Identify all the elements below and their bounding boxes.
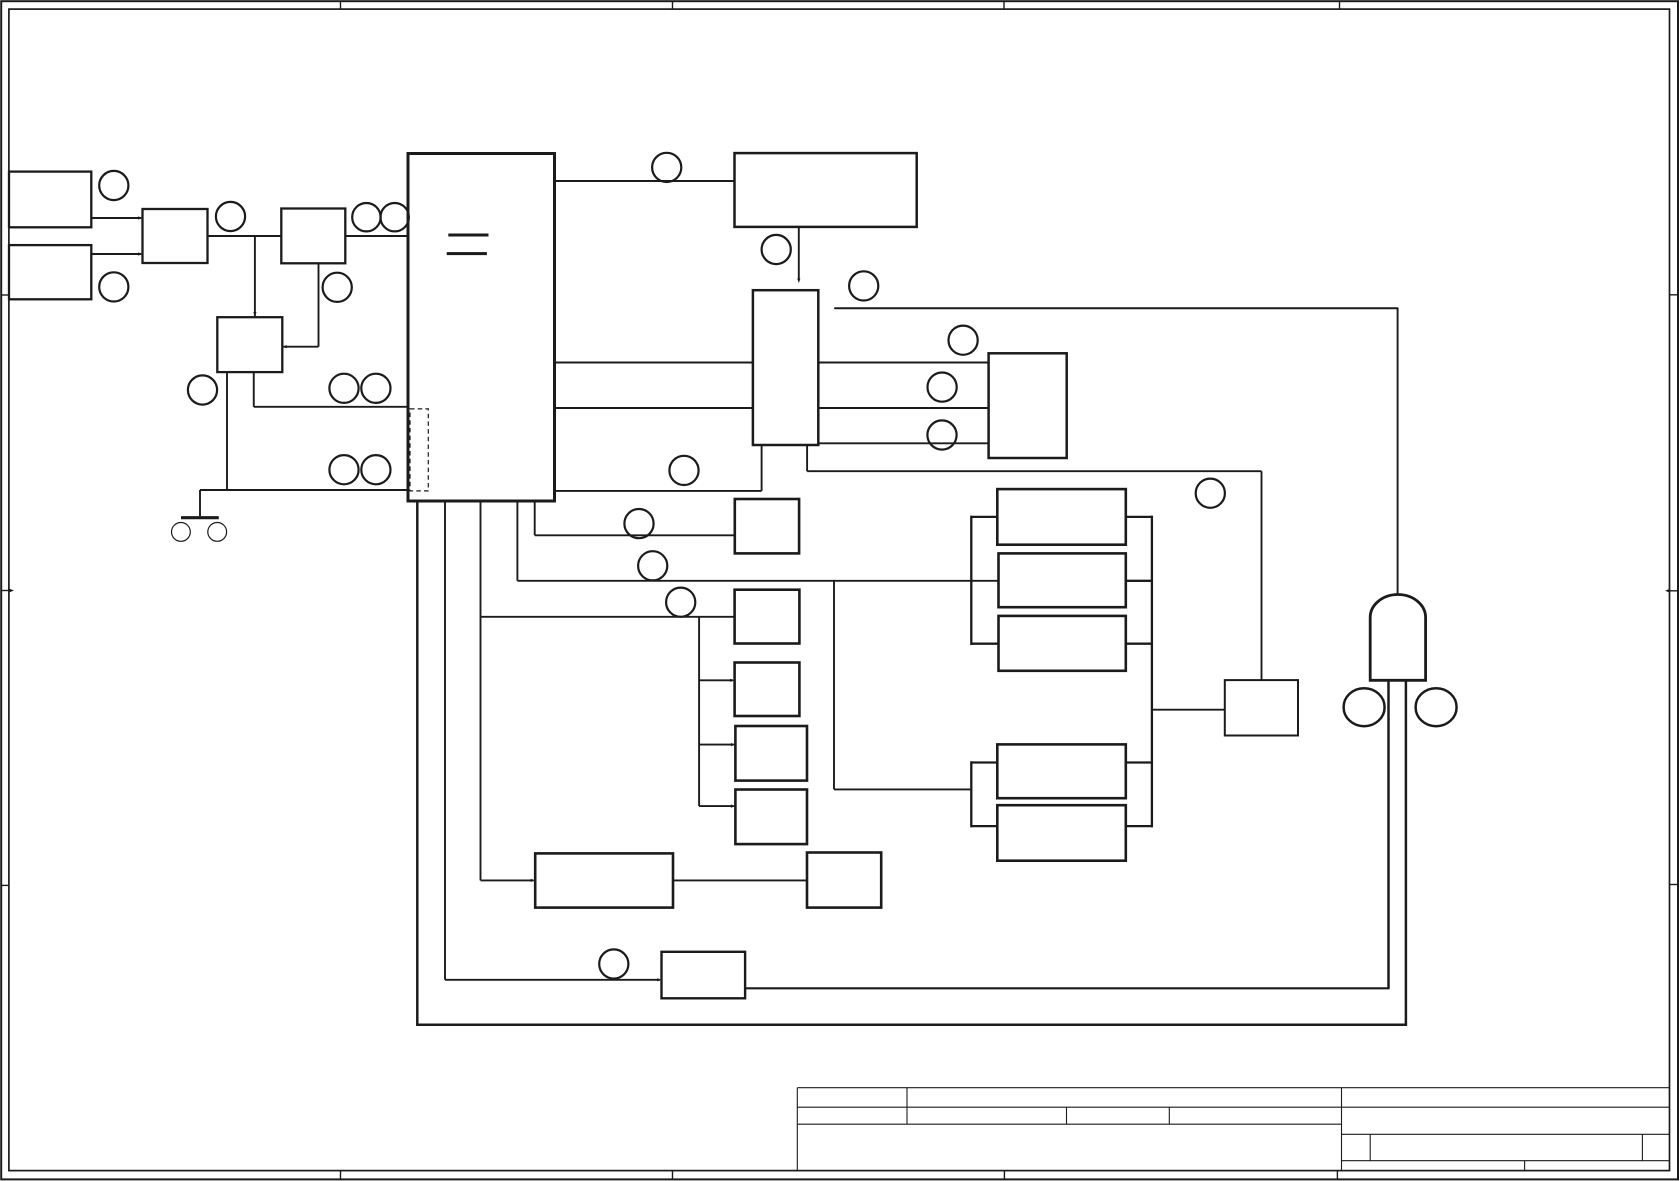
connector circle C18 xyxy=(638,551,667,580)
wire U1 right to B7 bottom xyxy=(555,445,762,491)
dashed option box on U1 left edge xyxy=(410,409,428,491)
wire U1 to B7 lower xyxy=(555,407,753,409)
bus wire down middle column xyxy=(698,617,700,806)
top border zone tick 1 xyxy=(340,1,342,9)
connector circle C2 xyxy=(99,272,128,301)
left border centering arrow xyxy=(1,589,14,593)
wire B7 bottom to B17 xyxy=(807,445,1261,680)
block B1 (top-left input unit) xyxy=(9,172,91,228)
block BC (fuse unit 3) xyxy=(999,616,1126,671)
connector circle pair C4b xyxy=(381,203,409,231)
wire B5 down to U1 pin xyxy=(254,372,408,407)
block BD (fuse unit 4) xyxy=(997,744,1126,798)
main unit U1 (power control module) xyxy=(408,154,555,502)
wire B5 to ground bus xyxy=(226,372,228,490)
block BA (fuse unit 1) xyxy=(997,489,1126,545)
connector circle C10 xyxy=(762,235,791,264)
battery symbol bar 2 xyxy=(447,252,487,255)
block B3 (junction unit) xyxy=(143,209,208,263)
wire branch down to lower stack xyxy=(834,581,971,790)
stub wire to B13 xyxy=(699,805,735,808)
wire B1 to B3 xyxy=(91,216,142,219)
title block right row line 2 xyxy=(1342,1133,1670,1135)
block B14 (switch panel unit) xyxy=(535,853,673,907)
left border zone tick 1 xyxy=(1,294,9,296)
connector circle C15 xyxy=(669,456,698,485)
horn left lead xyxy=(1387,681,1390,988)
wire B7 to B8 middle xyxy=(818,407,988,409)
connector circle pair C7a xyxy=(329,455,358,484)
connector circle C11 xyxy=(849,271,878,300)
block B5 (control unit) xyxy=(217,317,282,372)
block B15 (aux unit) xyxy=(807,853,881,908)
stub wire to B12 xyxy=(699,743,735,746)
block B6 (top display unit) xyxy=(735,153,917,227)
stub wire to B11 xyxy=(699,679,735,682)
connector circle pair C4a xyxy=(352,203,380,231)
block B17 (relay box) xyxy=(1225,680,1298,735)
connector circle C5 xyxy=(323,273,352,302)
horn / sounder SP1 xyxy=(1370,595,1425,681)
block B2 (lower-left input unit) xyxy=(9,245,91,299)
ground symbol xyxy=(172,490,227,541)
left bracket bus of bottom stack xyxy=(971,761,997,827)
wire U1 pin4 to BB row xyxy=(517,501,998,581)
block BE (fuse unit 5) xyxy=(997,805,1126,861)
horn terminal circle left xyxy=(1344,688,1385,726)
title block right cell divider 2 xyxy=(1641,1134,1643,1160)
wire U1 pin2 to B16 xyxy=(445,501,662,981)
wire to horn top xyxy=(835,308,1398,594)
top border zone tick 4 xyxy=(1339,1,1341,9)
ground bus wire into U1 xyxy=(200,489,408,491)
title block left cell divider 1 xyxy=(906,1088,908,1125)
right border centering arrow xyxy=(1665,589,1678,593)
left border zone tick 2 xyxy=(1,884,9,886)
connector circle C12 xyxy=(949,326,978,355)
title block left cell divider 2 xyxy=(1066,1107,1068,1124)
block B16 (buzzer driver unit) xyxy=(662,952,746,999)
block B13 (lamp unit 4) xyxy=(735,790,807,845)
battery symbol bar 1 xyxy=(448,234,488,237)
top border zone tick 3 xyxy=(1003,1,1005,9)
wire B14 to B15 xyxy=(673,879,807,881)
wire U1 to B7 upper xyxy=(555,362,753,364)
title block right cell divider 1 xyxy=(1369,1134,1371,1160)
right border zone tick 2 xyxy=(1670,884,1679,886)
wire B7 to B8 upper xyxy=(818,362,988,364)
block B4 (relay unit) xyxy=(281,209,345,264)
connector circle C17 xyxy=(624,509,653,538)
wire U1 pin3 to B10 xyxy=(481,501,735,880)
connector circle C20 xyxy=(599,949,628,978)
connector circle C1 xyxy=(99,171,128,200)
connector circle C14 xyxy=(927,420,956,449)
block B8 (sensor unit) xyxy=(989,353,1067,458)
horn right lead xyxy=(1405,681,1408,1025)
connector circle pair C6b xyxy=(361,374,390,403)
title block bottom cell divider xyxy=(1524,1161,1526,1171)
block B11 (lamp unit 2) xyxy=(735,663,800,717)
block B10 (lamp unit 1) xyxy=(735,590,800,644)
block B9 (memory unit) xyxy=(735,499,799,553)
title block right row line 3 xyxy=(1342,1160,1670,1162)
stub wire to B14 xyxy=(481,879,536,882)
bottom border zone tick 3 xyxy=(1003,1171,1005,1180)
top border zone tick 2 xyxy=(672,1,674,9)
connector circle C16 xyxy=(1196,479,1225,508)
stub wire bracket to B17 xyxy=(1152,709,1225,711)
wire B4 bottom to B5 right xyxy=(282,263,318,348)
connector circle C3 xyxy=(216,202,245,231)
connector circle C19 xyxy=(666,588,695,617)
wire B7 to B8 lower xyxy=(818,442,988,444)
title block top edge xyxy=(797,1087,1669,1089)
connector circle C9 xyxy=(652,153,681,182)
block B12 (lamp unit 3) xyxy=(735,726,807,781)
title block left row line 2 xyxy=(797,1123,1341,1125)
connector circle pair C6a xyxy=(329,374,358,403)
wire B16 to horn left leg xyxy=(745,987,1390,989)
wire B2 to B3 xyxy=(91,252,142,255)
connector circle C13 xyxy=(928,373,957,402)
wire U1 pin5 to B9 xyxy=(535,501,735,535)
bottom border zone tick 2 xyxy=(672,1171,674,1180)
node J1 wire down to B5 xyxy=(253,236,256,317)
connector circle C8 xyxy=(188,375,217,404)
left bracket bus of top stack xyxy=(971,516,998,645)
wire U1 to B6 xyxy=(555,180,735,182)
bottom return wire U1 pin1 to horn xyxy=(416,501,1407,1025)
connector circle pair C7b xyxy=(361,455,390,484)
block BB (fuse unit 2) xyxy=(999,553,1126,607)
bottom border zone tick 1 xyxy=(340,1171,342,1180)
title block outline left edge xyxy=(796,1088,798,1171)
wire B3 to B4 xyxy=(208,235,282,237)
bottom border zone tick 4 xyxy=(1336,1171,1338,1180)
wire B4 to main unit U1 xyxy=(345,235,408,237)
right bracket bus of stacks xyxy=(1126,516,1152,828)
wire B6 down to B7 xyxy=(797,227,800,283)
title block mid divider xyxy=(1341,1088,1343,1171)
title block row line 1 xyxy=(797,1106,1669,1108)
horn terminal circle right xyxy=(1416,688,1457,726)
title block left cell divider 3 xyxy=(1168,1107,1170,1124)
block B7 (interface unit) xyxy=(753,290,818,445)
right border zone tick 1 xyxy=(1670,294,1679,296)
